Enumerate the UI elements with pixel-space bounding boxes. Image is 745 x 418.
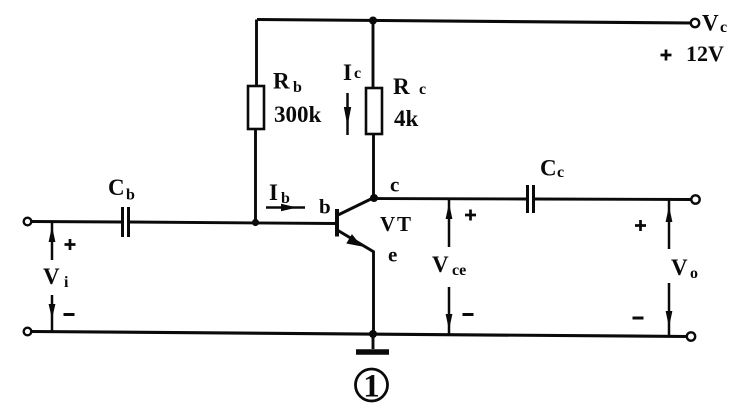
- svg-text:ce: ce: [452, 262, 466, 279]
- wire Vo bottom segment: [668, 283, 671, 336]
- svg-text:R: R: [393, 74, 410, 99]
- svg-text:b: b: [293, 79, 302, 96]
- transistor VT collector stroke: [338, 198, 374, 216]
- capacitor Cc: [528, 185, 534, 213]
- node top junction: [369, 17, 377, 25]
- svg-text:V: V: [432, 252, 449, 277]
- svg-text:i: i: [64, 274, 69, 291]
- svg-text:c: c: [720, 19, 727, 36]
- terminal output top: [691, 195, 699, 203]
- svg-text:V: V: [671, 255, 688, 280]
- svg-text:300k: 300k: [274, 102, 322, 127]
- wire input left: [32, 220, 123, 223]
- wire Rb top: [255, 20, 258, 88]
- svg-text:C: C: [540, 156, 557, 181]
- svg-text:c: c: [390, 173, 399, 197]
- arrowhead emitter: [346, 234, 362, 246]
- svg-text:V: V: [380, 212, 395, 236]
- arrowhead Vce down: [446, 314, 453, 330]
- svg-text:T: T: [397, 212, 411, 236]
- arrowhead Vi up: [49, 226, 56, 242]
- label Vce minus: [463, 313, 474, 316]
- label Vo minus: [633, 317, 644, 320]
- label Vi plus: [65, 239, 76, 250]
- wire emitter vertical: [372, 251, 375, 334]
- wire Cc to output: [534, 198, 692, 201]
- terminal input bottom: [24, 328, 32, 336]
- wire Vi top segment: [51, 222, 54, 260]
- wire Vce bottom segment: [448, 287, 451, 335]
- ground: [356, 349, 389, 355]
- wire Rc bottom: [372, 134, 375, 198]
- terminal input top: [24, 218, 32, 226]
- svg-text:C: C: [108, 175, 125, 200]
- svg-text:e: e: [388, 243, 397, 267]
- svg-text:V: V: [702, 11, 719, 36]
- svg-text:b: b: [319, 195, 331, 219]
- svg-text:o: o: [690, 265, 698, 282]
- node emitter-ground junction: [369, 330, 377, 338]
- svg-text:4k: 4k: [394, 106, 419, 131]
- arrowhead Vce up: [446, 203, 453, 219]
- node collector junction c: [370, 194, 378, 202]
- wire bottom rail: [32, 332, 688, 337]
- resistor Rb: [248, 86, 264, 129]
- label +12V plus sign: [661, 50, 672, 61]
- arrowhead Vo up: [666, 206, 673, 222]
- wire Rb bottom: [254, 129, 257, 223]
- svg-text:c: c: [354, 65, 361, 82]
- wire input to base: [130, 222, 337, 224]
- label Vo plus: [635, 220, 646, 231]
- svg-text:I: I: [269, 180, 278, 205]
- transistor VT emitter stroke: [338, 231, 374, 253]
- svg-text:V: V: [43, 264, 60, 289]
- wire ground stub: [372, 334, 375, 349]
- terminal Vc: [691, 19, 699, 27]
- svg-text:c: c: [557, 164, 564, 181]
- wire Vi bottom segment: [51, 295, 54, 331]
- wire Vce top segment: [448, 200, 451, 247]
- node base junction: [252, 219, 259, 226]
- current arrow Ic line: [346, 93, 349, 135]
- svg-text:b: b: [281, 190, 290, 207]
- arrowhead Ib right: [281, 204, 297, 212]
- label Vce plus: [465, 210, 476, 221]
- label Vi minus: [64, 313, 75, 316]
- wire Rc top: [372, 20, 375, 89]
- circled figure number 1: [356, 369, 388, 405]
- wire top rail: [257, 20, 693, 24]
- svg-text:1: 1: [363, 369, 380, 405]
- current arrow Ib line: [266, 206, 305, 209]
- svg-text:12V: 12V: [686, 41, 724, 66]
- svg-text:b: b: [126, 187, 135, 204]
- arrowhead Vi down: [49, 304, 56, 319]
- svg-text:c: c: [419, 81, 426, 98]
- arrowhead Vo down: [666, 311, 673, 327]
- capacitor Cb: [123, 207, 129, 237]
- svg-text:I: I: [343, 60, 352, 85]
- wire collector to Cc: [375, 197, 527, 200]
- svg-text:R: R: [273, 69, 290, 94]
- transistor Q VT base bar: [335, 209, 339, 237]
- terminal output bottom: [687, 332, 695, 340]
- arrowhead Ic down: [344, 107, 351, 126]
- resistor Rc: [366, 88, 382, 134]
- wire Vo top segment: [668, 200, 671, 249]
